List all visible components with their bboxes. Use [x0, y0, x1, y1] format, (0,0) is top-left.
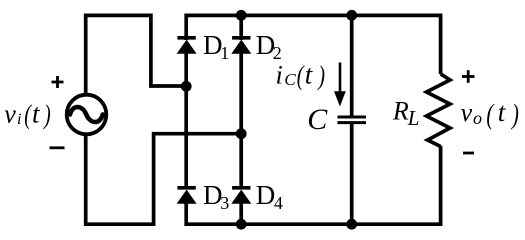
wire left bridge column [184, 52, 188, 187]
label RL [392, 97, 420, 131]
wire capacitor top lead [350, 15, 354, 117]
wire top rail with corner stubs [186, 15, 440, 74]
label vi(t) [4, 99, 51, 131]
plus sign at output [462, 70, 475, 83]
svg-text:C: C [284, 70, 296, 89]
diode D3 [177, 188, 197, 204]
wire bottom rail with corner stubs [186, 146, 440, 224]
label iC(t) [276, 60, 326, 92]
svg-text:3: 3 [220, 193, 229, 213]
current arrow iC [334, 63, 346, 107]
junction node source to D2-D4 [236, 128, 247, 139]
svg-text:): ) [42, 101, 50, 130]
svg-text:i: i [17, 111, 21, 128]
label vo(t) [461, 97, 519, 130]
svg-text:): ) [317, 62, 325, 91]
label D3 [203, 180, 229, 213]
junction node bottom D4 [236, 219, 247, 230]
plus sign at source [52, 76, 64, 88]
svg-text:t: t [32, 99, 41, 129]
svg-text:(: ( [486, 100, 494, 131]
junction node top D2 [236, 10, 247, 21]
wire D2 column top stub [239, 15, 243, 40]
wire D2-D4 middle column [239, 52, 243, 187]
capacitor C plates [338, 117, 367, 123]
svg-text:1: 1 [220, 43, 229, 63]
svg-text:t: t [305, 60, 314, 90]
label D1 [203, 30, 229, 63]
diode D1 [177, 38, 197, 54]
junction node bottom capacitor [346, 219, 357, 230]
diode D4 [231, 188, 251, 204]
diode D2 [231, 38, 251, 54]
ac source V1 circle [67, 95, 107, 135]
svg-text:t: t [498, 97, 507, 127]
minus sign at source [50, 146, 65, 149]
wire source top loop [86, 15, 187, 94]
svg-text:o: o [473, 108, 482, 128]
svg-text:L: L [407, 106, 420, 130]
junction node top capacitor [346, 10, 357, 21]
svg-text:v: v [4, 100, 16, 129]
junction node source to D1-D3 [181, 81, 192, 92]
ac source sine wave [70, 107, 103, 122]
minus sign at output [463, 152, 474, 155]
svg-text:4: 4 [274, 193, 283, 213]
resistor RL zigzag [427, 74, 451, 147]
svg-text:v: v [461, 98, 473, 127]
svg-text:R: R [392, 97, 409, 126]
wire D4 column bottom stub [239, 202, 243, 224]
label D4 [256, 180, 283, 213]
svg-text:C: C [307, 103, 328, 136]
wire capacitor bottom lead [350, 122, 354, 224]
label D2 [256, 30, 282, 63]
wire source bottom loop [86, 134, 242, 225]
svg-text:i: i [276, 61, 283, 90]
svg-text:D: D [256, 180, 276, 210]
svg-text:): ) [510, 100, 519, 131]
